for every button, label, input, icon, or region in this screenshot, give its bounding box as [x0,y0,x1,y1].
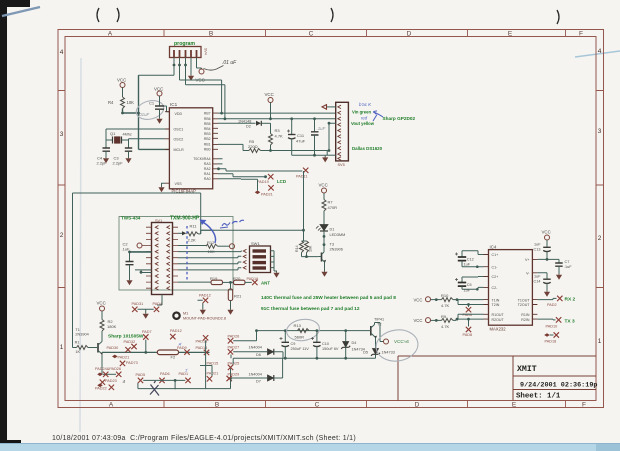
svg-text:Vout yellow: Vout yellow [351,121,375,126]
svg-text:220Ω: 220Ω [248,144,258,149]
svg-text:PAD8: PAD8 [463,333,473,337]
svg-text:4.7K: 4.7K [441,324,450,329]
svg-text:C12: C12 [467,257,474,261]
blue pen dashed line [186,226,188,281]
capacitor C12 [455,251,484,268]
vcc T3 column [322,188,327,193]
svg-text:RB6: RB6 [204,117,211,121]
svg-text:C13: C13 [534,247,541,251]
svg-text:C1+: C1+ [492,253,499,257]
svg-text:PAD27: PAD27 [228,345,240,349]
svg-text:PAD73: PAD73 [126,361,138,365]
resistor R9 [431,319,442,321]
op IC1 PIC16F84AP [165,102,218,194]
LED D1 [316,225,345,238]
wire V- to C14 [537,273,547,279]
frame ticks top [58,30,604,408]
svg-text:C7: C7 [565,260,570,264]
wire long rail y193 [73,193,201,348]
svg-text:R14: R14 [295,245,299,252]
scanner cyan strip bottom [0,444,620,451]
svg-text:SW1: SW1 [251,241,260,246]
svg-text:D: D [407,31,412,38]
svg-text:RB2: RB2 [204,137,211,141]
svg-text:MCLR: MCLR [174,148,185,152]
wire PAD11 down [303,171,305,241]
frame letters bottom [109,402,586,409]
svg-text:bʹac K: bʹac K [359,102,372,107]
svg-text:F: F [582,402,586,409]
svg-text:VCC: VCC [265,92,274,97]
wire caps bottom rail [292,154,326,156]
svg-text:D5: D5 [363,351,368,355]
svg-text:VCC: VCC [414,318,423,323]
svg-text:VCC≈6: VCC≈6 [394,339,409,344]
svg-text:C2-: C2- [492,286,499,290]
capacitor C9 electrolytic [280,331,310,359]
svg-text:.01uF: .01uF [138,112,150,117]
paper edge vertical line [80,58,81,432]
wire VCC rail RB6 [218,118,336,120]
svg-text:C11: C11 [297,133,305,138]
pin stubs [165,112,218,184]
scanner black mark bottom-left [0,440,21,451]
wire pin1 stub with socket arrow [327,106,336,108]
wire RA2 to PAD11 [218,169,302,171]
left pin stubs [141,227,152,288]
module box TWS-434 / TXM-900-HP [119,217,233,291]
svg-text:C5: C5 [467,283,472,287]
svg-text:B: B [209,31,213,38]
wire C1 to VDD [164,106,169,112]
svg-text:RB7: RB7 [204,112,211,116]
capacitor C7 [555,259,572,272]
svg-text:XMIT: XMIT [517,365,537,374]
svg-text:1ʹ: 1ʹ [185,368,188,373]
svg-text:RB5: RB5 [204,122,211,126]
svg-text:R2IN: R2IN [521,318,530,322]
pencil circle TIP41 [374,327,420,364]
wire PAD31 PAD4 [138,309,154,311]
svg-text:R1OUT: R1OUT [492,313,505,317]
svg-text:C2+: C2+ [492,275,499,279]
capacitor C2 .1uF [122,242,134,279]
svg-text:TIP41: TIP41 [374,318,384,322]
svg-text:VCC: VCC [542,230,551,235]
wire OSC1 down to crystal [106,129,112,148]
wire heater top rail [257,330,368,332]
svg-text:4: 4 [598,48,602,55]
svg-text:T3: T3 [330,243,334,247]
junction dots program [173,64,176,67]
pad PAD6b [468,305,470,308]
svg-text:91C thermal fuse between pad 7: 91C thermal fuse between pad 7 and pad 1… [261,306,360,312]
crystal Q1 [110,131,132,143]
ground program pin4 [188,74,194,81]
wire RB1 to R5 [218,144,249,150]
svg-text:Dallas DS1620: Dallas DS1620 [352,146,383,151]
resistor R16 pullup [305,241,309,253]
svg-text:Sharp 101505W: Sharp 101505W [108,334,144,340]
vcc R4 [120,83,125,88]
svg-text:4: 4 [60,49,64,56]
vcc R9 [426,318,431,323]
wire vcc down [270,103,272,119]
wire SV5 lower pins [327,123,336,150]
capacitor C6 .1uF [311,119,326,155]
frame numbers right [598,48,602,345]
wire R3 to node [270,145,272,151]
svg-text:R21: R21 [234,294,242,299]
svg-text:D: D [415,402,420,409]
pad PAD10 TX3 [556,317,561,322]
svg-text:1K: 1K [75,350,80,354]
svg-text:T0CKI/RA4: T0CKI/RA4 [193,157,210,161]
wire crystal to OSC2 [122,139,166,148]
op IC4 MAX232 [484,244,538,331]
blue streak top-left [2,7,40,16]
drawing frame inner [65,37,596,401]
svg-text:1uF: 1uF [464,263,471,267]
svg-text:PAD29: PAD29 [228,373,240,377]
svg-text:D4: D4 [352,341,357,345]
wire pads 5-6-1 [143,380,185,389]
svg-text:F2: F2 [171,355,176,360]
svg-text:9/24/2001 02:36:19p: 9/24/2001 02:36:19p [520,382,598,390]
svg-text:150uF 6V: 150uF 6V [322,347,339,351]
wire RA1 to PAD21 [218,164,258,191]
svg-text:IC1: IC1 [170,102,178,107]
svg-text:2N3906: 2N3906 [330,248,343,252]
transistor T2 TIP41 [368,318,385,349]
svg-text:2: 2 [60,232,64,239]
supply arrow PAD21 [255,191,261,195]
capacitor C14 [534,275,551,290]
svg-text:TWS-434: TWS-434 [121,216,141,221]
svg-text:PAD32: PAD32 [124,340,136,344]
svg-text:PAD21: PAD21 [118,355,130,359]
svg-text:2: 2 [598,235,602,242]
wire .01uF curl [204,66,224,71]
svg-text:T2: T2 [377,323,381,327]
ground C3 [125,156,131,163]
svg-text:E: E [512,402,517,409]
svg-text:M1: M1 [183,312,188,316]
svg-text:R7: R7 [328,200,334,205]
svg-text:1N4004: 1N4004 [249,346,262,350]
svg-text:TXM-900-HP: TXM-900-HP [170,216,200,222]
svg-text:ANT: ANT [261,280,270,285]
svg-text:red: red [361,116,368,121]
svg-text:PAD4: PAD4 [153,302,163,306]
svg-text:VCC: VCC [414,297,423,302]
svg-text:C: C [309,31,314,38]
vcc node top C [268,98,273,103]
svg-text:VCC: VCC [319,183,328,188]
svg-text:PAD19: PAD19 [257,180,269,184]
binder mark ( ) [97,8,559,24]
svg-text:VCC: VCC [97,301,106,306]
svg-text:PAD24&PAD26: PAD24&PAD26 [95,367,121,371]
svg-text:E: E [508,31,513,38]
wire PAD26 up to heater rail [233,331,256,341]
svg-text:PAD31: PAD31 [132,302,144,306]
svg-text:VDD: VDD [175,112,183,116]
svg-text:47uF: 47uF [296,139,306,144]
svg-text:PAD6: PAD6 [463,313,473,317]
resistor R2 180K [100,320,104,332]
wire T2IN bend [458,300,484,305]
svg-text:T2OUT: T2OUT [518,303,531,307]
svg-text:TX 3: TX 3 [565,318,575,324]
wire OSC1 [106,128,165,130]
svg-text:R11: R11 [190,224,198,229]
transistor T1 2N3904 [75,328,103,374]
svg-text:C9: C9 [291,342,296,346]
junction R4 [121,112,124,115]
ground VSS [162,183,166,185]
resistor R21 [230,282,232,289]
svg-text:OSC2: OSC2 [174,137,184,141]
svg-text:LED3MM: LED3MM [330,233,346,237]
transistor T3 2N3906 [318,243,343,270]
svg-text:PAD2: PAD2 [547,303,557,307]
blue pen arrow TXM [200,220,207,226]
svg-text:RX 2: RX 2 [565,297,576,303]
resistor R4 [121,97,125,109]
drawing frame outer [58,30,604,408]
svg-text:3: 3 [598,128,602,135]
svg-text:Q1: Q1 [110,131,116,136]
wire R2IN TX3 [537,318,555,321]
blue streak top-right [575,51,620,57]
pad PAD19 [268,174,273,179]
vcc program [199,69,204,74]
pad PAD8b [468,319,470,326]
frame numbers left [60,49,64,351]
svg-text:C1: C1 [149,101,155,106]
capacitor C10 [311,331,339,359]
pad PAD21 [268,185,273,190]
svg-text:B: B [215,402,219,409]
connector SV5 [336,102,349,167]
svg-text:PAD11: PAD11 [296,175,307,179]
svg-text:PAD9: PAD9 [177,346,187,350]
capacitor C5 [455,277,484,293]
open pin circle left [137,243,142,248]
svg-text:VCC: VCC [154,87,163,92]
svg-text:PAD21: PAD21 [261,192,273,196]
wire bottom rail [138,341,231,389]
svg-text:PAD5: PAD5 [136,373,146,377]
capacitor C3 [113,148,133,166]
svg-text:RB3: RB3 [204,132,211,136]
svg-text:C1-: C1- [492,265,499,269]
diode D1s small + resistor R11 [178,224,214,243]
svg-text:PAD30: PAD30 [107,346,119,350]
svg-text:250uF 11V: 250uF 11V [291,347,310,351]
capacitor C4 [97,148,111,166]
ground C2 [126,278,132,285]
svg-text:1N4733: 1N4733 [382,351,395,355]
svg-text:RB1: RB1 [204,142,211,146]
wire vcc to R4 [122,88,124,98]
resistor R7 heater [322,200,326,212]
wire R1OUT bend [458,314,484,319]
wire antenna rail [178,281,211,283]
wire program rail to MCLR column [139,74,175,77]
svg-text:D7: D7 [256,380,261,384]
svg-text:10/18/2001 07:43:09a C:/Progr: 10/18/2001 07:43:09a C:/Program Files/EA… [52,435,356,442]
svg-text:PAD23: PAD23 [105,379,117,383]
resistor R10 [431,299,442,301]
resistor R3 [269,134,273,146]
svg-text:R13: R13 [294,323,302,328]
svg-text:RB0: RB0 [204,147,211,151]
svg-text:T1OUT: T1OUT [518,298,531,302]
frame letters top [108,31,583,38]
svg-text:RA1: RA1 [204,172,211,176]
svg-text:PAD6: PAD6 [160,372,170,376]
title block [398,356,596,401]
wire R4 to MCLR rail [123,75,170,149]
svg-text:SV4: SV4 [204,48,208,55]
scanner black bar left edge [0,0,7,451]
svg-text:T2IN: T2IN [492,303,500,307]
wire main TX rail [102,351,157,353]
resistor R5 220 [249,149,261,153]
svg-text:OSC1: OSC1 [174,128,184,132]
open pin heater out [384,339,389,344]
svg-text:R3: R3 [275,128,281,133]
svg-text:140C thermal fuse and 25W heat: 140C thermal fuse and 25W heater between… [261,295,396,301]
wire R11 node to PAD11 line [201,229,304,231]
pad PAD2 RX2 [557,296,562,301]
svg-text:4.7K: 4.7K [441,303,450,308]
svg-text:10K: 10K [309,245,313,252]
svg-text:R2OUT: R2OUT [492,318,505,322]
wire program to RB7/RB6 [180,80,225,119]
connector SV4 [170,47,208,58]
svg-text:1: 1 [598,338,602,345]
svg-text:PAD7: PAD7 [142,330,152,334]
svg-text:RA2: RA2 [204,167,211,171]
svg-text:D2: D2 [246,124,251,128]
wire F2 to PAD9 [179,351,210,353]
supply arrow PAD21b [112,355,118,359]
vcc R10 [426,297,431,302]
wire T1OUT RX2 [537,298,556,299]
svg-text:2.2pF: 2.2pF [113,161,124,166]
svg-text:F: F [579,31,583,38]
capacitor C11 47uF [287,119,306,155]
wire PAD25 mid rail [233,358,375,364]
svg-text:1N4148: 1N4148 [238,119,251,123]
svg-text:RA3: RA3 [204,162,211,166]
blue pen note [220,220,244,228]
blue pen arrow sensor [373,111,383,121]
svg-text:Aʹ: Aʹ [178,342,183,347]
svg-text:T1IN: T1IN [492,298,500,302]
svg-text:R9: R9 [441,314,447,319]
scanner black mark top-left [0,0,30,7]
handwritten X cross [150,381,159,396]
svg-text:PAD18: PAD18 [545,339,557,343]
pencil circle around C1 [134,98,166,122]
pad PAD11 [303,168,308,173]
svg-text:2N3904: 2N3904 [75,332,88,336]
svg-text:560R: 560R [295,335,305,340]
svg-text:.1uF: .1uF [317,126,326,131]
wire module bottom to pads [157,295,162,306]
ground caps rail [322,155,328,162]
wire program pins down [174,58,197,85]
diode D2 1N4148 [218,119,271,128]
svg-text:RB4: RB4 [204,127,211,131]
svg-text:C10: C10 [322,342,329,346]
svg-text:VCC: VCC [117,78,126,83]
wire RA2 to PAD19 [218,159,267,177]
svg-text:3: 3 [60,131,64,138]
svg-text:PAD12: PAD12 [199,294,211,298]
svg-text:SV1: SV1 [155,219,162,223]
wire to vcc program [197,68,202,69]
svg-text:RA0: RA0 [204,177,211,181]
switch SW1 [243,241,276,273]
svg-text:D6: D6 [256,353,261,357]
svg-text:.01 uF: .01 uF [222,60,237,66]
svg-text:4.7K: 4.7K [275,134,284,139]
svg-text:PAD26: PAD26 [228,334,240,338]
svg-text:.1uF: .1uF [564,265,572,269]
wire RB7 to SV5 [218,112,336,114]
ground SW1 [273,271,279,278]
svg-text:V+: V+ [525,258,530,262]
pencil circle R13 [285,317,321,342]
svg-text:Sharp GP2D02: Sharp GP2D02 [383,116,416,121]
vcc C1 [157,91,162,96]
pad PAD18 [544,333,550,337]
wire V+ to C7 [537,258,559,260]
svg-text:2.2K: 2.2K [188,238,197,243]
wire pin row 8 [135,270,152,273]
svg-text:470R: 470R [328,205,338,210]
svg-text:A: A [108,31,113,38]
svg-text:10K: 10K [127,100,135,105]
svg-text:1uF: 1uF [464,289,471,293]
capacitor C1 [138,96,164,117]
svg-text:1uF: 1uF [534,242,541,246]
pad PAD73 [120,361,125,366]
svg-text:4Mhz: 4Mhz [123,133,132,137]
svg-text:LCD: LCD [277,179,286,184]
vcc C13 [545,235,550,240]
svg-text:R1IN: R1IN [521,313,530,317]
diode D4 zener [341,331,365,359]
svg-text:D1: D1 [330,228,335,232]
resistor R12 [178,240,235,254]
svg-text:C14: C14 [534,280,541,284]
svg-text:PAD22: PAD22 [95,387,107,391]
svg-text:Sheet: 1/1: Sheet: 1/1 [516,393,561,401]
svg-text:1: 1 [60,344,64,351]
svg-text:Vin green: Vin green [352,110,371,115]
ground pads [143,312,149,319]
capacitor C13 [534,240,551,259]
svg-text:R4: R4 [108,100,114,105]
svg-text:MAX232: MAX232 [490,327,507,332]
diode D5 1N4733 [363,349,395,359]
